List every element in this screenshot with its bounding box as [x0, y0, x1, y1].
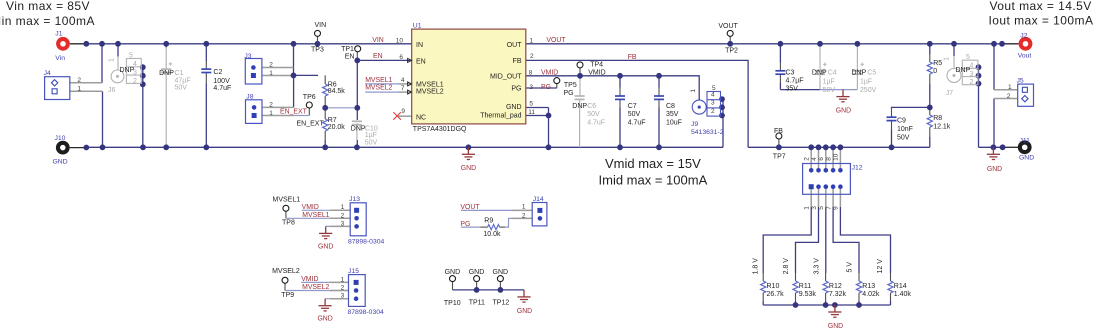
- svg-text:C2: C2: [213, 69, 222, 76]
- svg-text:PG: PG: [564, 90, 574, 97]
- svg-text:3: 3: [341, 221, 345, 228]
- svg-text:J10: J10: [55, 135, 66, 142]
- svg-text:VOUT: VOUT: [546, 37, 566, 44]
- svg-text:EN: EN: [373, 53, 383, 60]
- svg-text:R8: R8: [933, 115, 942, 122]
- svg-text:1: 1: [269, 70, 273, 77]
- svg-text:VMID: VMID: [588, 70, 606, 77]
- svg-text:1: 1: [804, 206, 811, 210]
- svg-text:50V: 50V: [587, 111, 600, 118]
- svg-text:VOUT: VOUT: [460, 204, 480, 211]
- svg-text:U1: U1: [413, 22, 422, 29]
- svg-text:DNP: DNP: [120, 67, 135, 74]
- svg-text:3: 3: [529, 84, 533, 91]
- svg-text:Vin: Vin: [55, 55, 65, 62]
- svg-text:3: 3: [811, 206, 818, 210]
- svg-text:R9: R9: [484, 218, 493, 225]
- svg-text:2: 2: [530, 53, 534, 60]
- svg-text:1: 1: [690, 89, 697, 93]
- svg-text:87898-0304: 87898-0304: [348, 238, 385, 245]
- svg-text:GND: GND: [828, 323, 843, 329]
- svg-text:GND: GND: [506, 104, 522, 111]
- svg-text:MVSEL1: MVSEL1: [302, 212, 329, 219]
- svg-text:6: 6: [818, 157, 825, 161]
- svg-text:VMID: VMID: [301, 276, 318, 283]
- svg-text:50V: 50V: [365, 140, 378, 147]
- svg-text:1.8 V: 1.8 V: [753, 258, 760, 275]
- svg-text:1.40k: 1.40k: [894, 291, 912, 298]
- svg-text:TP7: TP7: [773, 154, 786, 161]
- svg-text:2: 2: [522, 212, 526, 219]
- svg-text:1: 1: [522, 204, 526, 211]
- svg-text:1: 1: [944, 57, 951, 61]
- svg-text:PG: PG: [460, 221, 470, 228]
- svg-text:FB: FB: [774, 128, 783, 135]
- svg-text:PG: PG: [541, 84, 551, 91]
- svg-text:1: 1: [77, 86, 81, 93]
- svg-text:MVSEL2: MVSEL2: [365, 85, 392, 92]
- svg-text:10: 10: [396, 37, 404, 44]
- svg-text:DNP: DNP: [812, 70, 827, 77]
- svg-text:Iout max = 100mA: Iout max = 100mA: [989, 13, 1094, 27]
- svg-text:R10: R10: [767, 283, 780, 290]
- svg-text:26.7k: 26.7k: [767, 291, 785, 298]
- svg-text:R14: R14: [894, 283, 907, 290]
- svg-text:2: 2: [1007, 93, 1011, 100]
- svg-text:J6: J6: [108, 87, 116, 94]
- svg-text:9: 9: [833, 206, 840, 210]
- svg-text:OUT: OUT: [507, 42, 523, 49]
- svg-text:R5: R5: [933, 60, 942, 67]
- svg-text:1: 1: [269, 110, 273, 117]
- svg-text:R7: R7: [328, 117, 337, 124]
- svg-text:84.5k: 84.5k: [328, 88, 346, 95]
- svg-text:GND: GND: [469, 269, 485, 276]
- svg-text:MVSEL1: MVSEL1: [273, 197, 301, 204]
- svg-text:J11: J11: [1020, 137, 1031, 144]
- svg-text:Vmid max = 15V: Vmid max = 15V: [605, 156, 701, 171]
- svg-text:MVSEL2: MVSEL2: [272, 268, 300, 275]
- svg-text:TP3: TP3: [311, 47, 324, 54]
- svg-text:100V: 100V: [213, 78, 230, 85]
- svg-text:VOUT: VOUT: [718, 23, 738, 30]
- svg-text:GND: GND: [445, 269, 461, 276]
- svg-text:J9: J9: [691, 121, 698, 128]
- svg-text:2: 2: [269, 102, 273, 109]
- svg-text:2: 2: [341, 212, 345, 219]
- svg-text:VMID: VMID: [302, 204, 319, 211]
- svg-text:FB: FB: [628, 54, 637, 61]
- svg-text:7: 7: [401, 85, 405, 92]
- svg-text:C6: C6: [587, 103, 596, 110]
- svg-text:4: 4: [711, 91, 715, 98]
- svg-text:PG: PG: [511, 86, 521, 93]
- svg-text:GND: GND: [461, 165, 476, 172]
- svg-text:7: 7: [825, 206, 832, 210]
- svg-text:5413631-2: 5413631-2: [691, 129, 724, 136]
- svg-text:C5: C5: [867, 70, 876, 77]
- svg-text:GND: GND: [836, 108, 851, 115]
- svg-text:4: 4: [401, 77, 405, 84]
- svg-text:12.1k: 12.1k: [933, 124, 951, 131]
- svg-text:TP6: TP6: [303, 94, 316, 101]
- svg-text:8: 8: [529, 69, 533, 76]
- svg-text:GND: GND: [317, 315, 332, 322]
- svg-text:R12: R12: [829, 283, 842, 290]
- svg-text:GND: GND: [517, 308, 532, 315]
- svg-text:MVSEL2: MVSEL2: [302, 284, 329, 291]
- svg-text:3: 3: [711, 100, 715, 107]
- svg-text:NC: NC: [416, 115, 426, 122]
- svg-text:TP4: TP4: [590, 62, 603, 69]
- svg-text:2: 2: [804, 157, 811, 161]
- svg-text:TP2: TP2: [725, 48, 738, 55]
- svg-text:GND: GND: [987, 166, 1002, 173]
- svg-text:Imid max = 100mA: Imid max = 100mA: [599, 173, 708, 188]
- svg-text:GND: GND: [493, 269, 509, 276]
- svg-text:TP12: TP12: [493, 300, 510, 307]
- svg-text:MVSEL1: MVSEL1: [365, 77, 392, 84]
- svg-text:DNP: DNP: [956, 67, 971, 74]
- svg-text:50V: 50V: [823, 87, 836, 94]
- svg-text:8: 8: [825, 157, 832, 161]
- svg-text:1: 1: [1008, 84, 1012, 91]
- svg-text:VIN: VIN: [315, 22, 327, 29]
- svg-text:DNP: DNP: [159, 70, 174, 77]
- svg-text:Vout: Vout: [1018, 53, 1032, 60]
- svg-text:12 V: 12 V: [877, 259, 884, 274]
- svg-text:9: 9: [401, 108, 405, 115]
- svg-text:10nF: 10nF: [897, 126, 913, 133]
- svg-text:GND: GND: [1019, 154, 1034, 161]
- svg-text:R13: R13: [862, 283, 875, 290]
- svg-text:TP10: TP10: [444, 300, 461, 307]
- svg-text:5: 5: [129, 53, 133, 60]
- svg-text:5: 5: [529, 101, 533, 108]
- svg-text:Vout max = 14.5V: Vout max = 14.5V: [990, 0, 1092, 13]
- svg-text:7.32k: 7.32k: [829, 291, 847, 298]
- svg-text:IN: IN: [416, 42, 423, 49]
- svg-text:2: 2: [711, 108, 715, 115]
- svg-text:4.7uF: 4.7uF: [628, 120, 646, 127]
- svg-text:J12: J12: [852, 165, 863, 172]
- svg-text:MID_OUT: MID_OUT: [490, 73, 522, 80]
- svg-text:MVSEL2: MVSEL2: [416, 89, 444, 96]
- svg-text:TP8: TP8: [282, 220, 295, 227]
- svg-text:C7: C7: [628, 103, 637, 110]
- svg-text:2.8 V: 2.8 V: [783, 258, 790, 275]
- svg-text:DNP: DNP: [351, 125, 366, 132]
- svg-text:250V: 250V: [860, 87, 877, 94]
- svg-text:10uF: 10uF: [666, 120, 682, 127]
- svg-text:GND: GND: [53, 159, 68, 166]
- svg-text:TP11: TP11: [469, 300, 485, 307]
- svg-text:1: 1: [529, 37, 533, 44]
- svg-text:J3: J3: [244, 53, 251, 60]
- svg-text:GND: GND: [318, 244, 333, 251]
- svg-text:2: 2: [341, 284, 345, 291]
- svg-text:DNP: DNP: [572, 103, 587, 110]
- svg-text:TP9: TP9: [281, 292, 294, 299]
- svg-text:6: 6: [399, 54, 403, 61]
- svg-text:TP5: TP5: [564, 82, 577, 89]
- svg-text:1: 1: [341, 276, 345, 283]
- svg-text:EN_EXT: EN_EXT: [280, 108, 308, 115]
- svg-text:0: 0: [933, 68, 937, 75]
- svg-text:4.02k: 4.02k: [862, 291, 880, 298]
- svg-text:20.0k: 20.0k: [328, 124, 346, 131]
- svg-text:1: 1: [109, 58, 116, 62]
- svg-text:9.53k: 9.53k: [799, 291, 817, 298]
- svg-text:87898-0304: 87898-0304: [348, 309, 385, 316]
- svg-text:1µF: 1µF: [823, 79, 835, 86]
- svg-text:3: 3: [341, 293, 345, 300]
- svg-text:3.3 V: 3.3 V: [814, 258, 821, 275]
- svg-text:2: 2: [970, 79, 974, 86]
- svg-text:1µF: 1µF: [860, 79, 872, 86]
- svg-text:TPS7A4301DGQ: TPS7A4301DGQ: [413, 126, 467, 133]
- svg-text:5: 5: [966, 54, 970, 61]
- svg-text:Thermal_pad: Thermal_pad: [480, 113, 521, 120]
- svg-text:EN: EN: [345, 53, 355, 60]
- svg-text:VIN: VIN: [372, 37, 384, 44]
- svg-text:J4: J4: [44, 70, 51, 77]
- svg-text:35V: 35V: [786, 85, 799, 92]
- svg-text:47µF: 47µF: [175, 78, 191, 85]
- svg-text:TP1: TP1: [341, 46, 354, 53]
- svg-text:11: 11: [528, 109, 535, 116]
- svg-text:J2: J2: [1020, 32, 1027, 39]
- svg-text:EN_EXT: EN_EXT: [297, 120, 325, 127]
- svg-text:J14: J14: [533, 196, 544, 203]
- svg-text:Iin max = 100mA: Iin max = 100mA: [0, 14, 95, 28]
- svg-text:10.0k: 10.0k: [483, 231, 501, 238]
- svg-text:4.7uF: 4.7uF: [587, 120, 605, 127]
- svg-text:J5: J5: [1017, 78, 1024, 85]
- svg-text:C1: C1: [175, 70, 184, 77]
- svg-text:Vin max = 85V: Vin max = 85V: [6, 0, 90, 13]
- svg-text:1: 1: [341, 204, 345, 211]
- svg-text:FB: FB: [513, 58, 522, 65]
- svg-text:J1: J1: [55, 31, 62, 38]
- svg-text:35V: 35V: [666, 111, 679, 118]
- svg-text:C3: C3: [786, 69, 795, 76]
- svg-text:2: 2: [133, 78, 137, 85]
- svg-text:DNP: DNP: [852, 70, 867, 77]
- svg-text:4: 4: [811, 157, 818, 161]
- svg-text:EN: EN: [416, 58, 426, 65]
- svg-text:C9: C9: [897, 117, 906, 124]
- svg-text:J13: J13: [349, 196, 360, 203]
- svg-text:J8: J8: [246, 93, 253, 100]
- svg-text:2: 2: [77, 77, 81, 84]
- svg-text:5 V: 5 V: [847, 262, 854, 273]
- svg-text:R11: R11: [799, 283, 811, 290]
- svg-text:MVSEL1: MVSEL1: [416, 81, 444, 88]
- svg-text:1µF: 1µF: [365, 132, 377, 139]
- svg-text:50V: 50V: [897, 134, 910, 141]
- svg-text:5: 5: [818, 206, 825, 210]
- svg-text:C8: C8: [666, 103, 675, 110]
- svg-text:2: 2: [269, 62, 273, 69]
- svg-text:VMID: VMID: [541, 69, 558, 76]
- svg-text:J15: J15: [348, 268, 359, 275]
- svg-text:C4: C4: [828, 70, 837, 77]
- svg-text:50V: 50V: [175, 85, 188, 92]
- svg-text:10: 10: [833, 153, 840, 161]
- svg-text:50V: 50V: [628, 111, 641, 118]
- svg-text:4.7µF: 4.7µF: [786, 77, 804, 84]
- svg-text:4.7uF: 4.7uF: [213, 85, 231, 92]
- svg-text:J7: J7: [946, 90, 954, 97]
